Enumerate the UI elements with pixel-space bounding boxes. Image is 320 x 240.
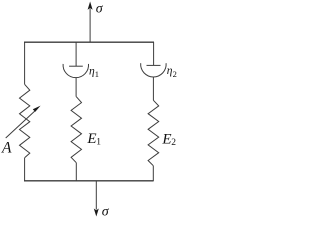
- spring E1: [71, 97, 81, 163]
- svg-text:A: A: [1, 139, 12, 156]
- left branch wire bottom: [24, 158, 26, 181]
- spring E2: [148, 100, 159, 166]
- svg-text:2: 2: [171, 138, 176, 148]
- svg-text:σ: σ: [102, 204, 110, 219]
- svg-text:1: 1: [96, 137, 101, 147]
- bottom bar: [24, 180, 154, 182]
- top bar: [24, 41, 154, 43]
- variability arrow through spring A: [6, 106, 41, 138]
- top stress arrow: [88, 2, 93, 43]
- middle branch wire bottom: [75, 163, 77, 181]
- right branch wire top: [153, 42, 155, 65]
- dashpot eta1: [63, 64, 88, 78]
- svg-text:E: E: [161, 132, 171, 148]
- svg-text:σ: σ: [96, 2, 104, 17]
- middle branch wire top: [75, 42, 77, 66]
- bottom stress arrow: [94, 181, 99, 217]
- svg-text:1: 1: [95, 69, 99, 79]
- spring A (variable spring): [20, 84, 30, 158]
- left branch wire top: [24, 42, 26, 84]
- dashpot eta2: [141, 63, 166, 77]
- right branch wire bottom: [152, 166, 154, 181]
- svg-text:2: 2: [173, 69, 177, 79]
- right dashpot-to-spring wire: [152, 77, 154, 100]
- middle dashpot-to-spring wire: [75, 78, 77, 97]
- svg-text:E: E: [86, 131, 96, 147]
